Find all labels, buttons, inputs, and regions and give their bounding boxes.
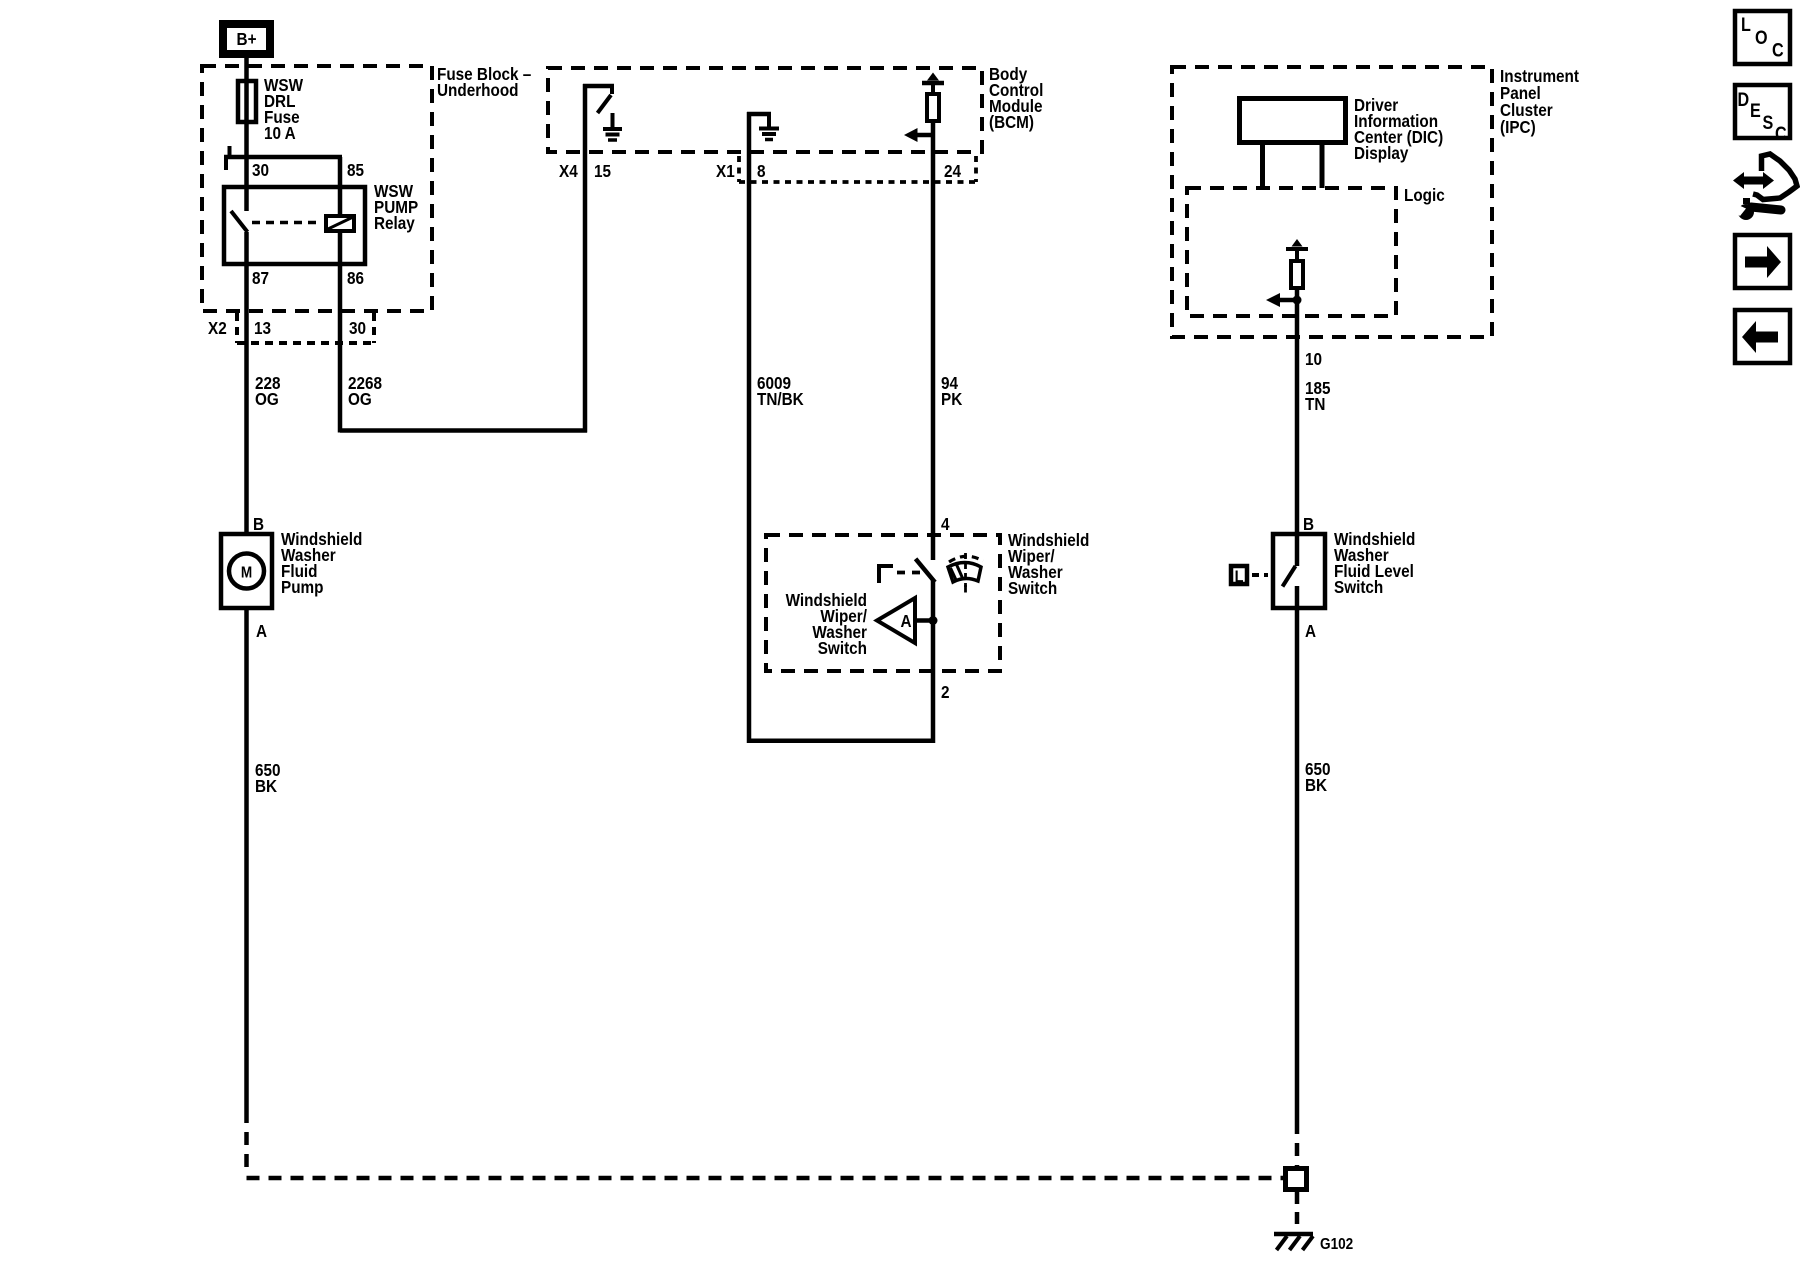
pin X4 label	[559, 161, 578, 181]
svg-text:L: L	[1741, 14, 1751, 36]
wire 2268 OG label	[348, 373, 382, 409]
relay pin 87 label	[252, 268, 269, 288]
fuse label	[264, 75, 303, 143]
sidebar DESC button	[1735, 85, 1790, 144]
relay pin 86 label	[347, 268, 364, 288]
switch blade pin4-pin2	[917, 561, 934, 581]
svg-text:C: C	[1772, 39, 1784, 61]
relay pin 87 wire	[244, 232, 249, 534]
svg-text:650BK: 650BK	[255, 760, 281, 796]
logic label	[1404, 185, 1445, 205]
relay switch blade	[231, 211, 248, 232]
IPC internal B+ symbol	[1286, 239, 1308, 261]
BCM internal switch (driver) at X4-15	[583, 84, 614, 152]
pin 2 label	[941, 682, 950, 702]
svg-text:X2: X2	[208, 318, 227, 338]
connector X2 dashed outline	[237, 313, 374, 343]
sidebar LOC button	[1735, 11, 1790, 64]
wire B+ to fuse (power feed)	[244, 58, 249, 81]
BCM internal ground at X1-8	[747, 112, 779, 152]
svg-text:G102: G102	[1320, 1236, 1353, 1253]
pin A label (pump)	[256, 621, 267, 641]
fuse block label	[437, 64, 531, 100]
svg-text:C: C	[1775, 123, 1787, 145]
pin 13 label	[254, 318, 271, 338]
BCM signal arrow (to pin 24)	[904, 121, 933, 560]
level switch label	[1334, 529, 1415, 597]
pin 8 label	[757, 161, 766, 181]
svg-text:A: A	[900, 611, 911, 631]
svg-text:10: 10	[1305, 349, 1322, 369]
svg-text:228OG: 228OG	[255, 373, 281, 409]
svg-text:15: 15	[594, 161, 611, 181]
switch linkage mark	[877, 564, 920, 583]
svg-text:85: 85	[347, 160, 364, 180]
switch wire pin2 side	[931, 580, 936, 743]
svg-text:X4: X4	[559, 161, 578, 181]
BCM internal B+ symbol	[922, 73, 944, 95]
svg-text:Logic: Logic	[1404, 185, 1445, 205]
pump motor M	[229, 554, 264, 589]
IPC label	[1500, 66, 1579, 137]
wire right dashed to splice	[1295, 1121, 1300, 1166]
wire 6009 TN/BK label	[757, 373, 804, 409]
svg-text:B+: B+	[237, 29, 257, 49]
sidebar prev-page button	[1735, 310, 1790, 363]
svg-text:87: 87	[252, 268, 269, 288]
pin X1 label	[716, 161, 735, 181]
instrument panel cluster dashed box	[1172, 67, 1492, 337]
wire BCM X1-8 down (6009 TN/BK)	[747, 152, 752, 743]
svg-text:B: B	[1303, 514, 1314, 534]
svg-text:30: 30	[349, 318, 366, 338]
relay coil	[326, 216, 354, 231]
logic dashed box	[1187, 188, 1396, 316]
sidebar next-page button	[1735, 235, 1790, 288]
DIC display legs	[1263, 143, 1323, 188]
fuse WSW DRL 10A	[238, 81, 256, 157]
battery feed B+ terminal	[223, 24, 270, 54]
pin 30 label	[349, 318, 366, 338]
windshield wiper/washer switch dashed box	[766, 535, 1000, 671]
svg-text:30: 30	[252, 160, 269, 180]
relay WSW PUMP box	[224, 187, 365, 264]
pin 10 label	[1305, 349, 1322, 369]
wire relay 86 to BCM X4-15	[340, 152, 587, 433]
wire pump to ground (650 BK)	[244, 608, 249, 1110]
driver information center display	[1240, 99, 1346, 143]
wiper switch inner label	[786, 590, 868, 658]
wire 94 PK label	[941, 373, 962, 409]
level switch L box	[1231, 566, 1268, 586]
fuse block underhood dashed box	[202, 66, 432, 311]
svg-text:2: 2	[941, 682, 950, 702]
svg-text:L: L	[1235, 568, 1244, 586]
BCM pull-up resistor	[927, 94, 939, 121]
svg-text:O: O	[1755, 27, 1768, 49]
ground G102 label	[1320, 1236, 1353, 1253]
level switch blade	[1283, 534, 1298, 610]
wire 650 BK label left	[255, 760, 281, 796]
svg-text:D: D	[1738, 89, 1750, 111]
pin B label (level switch)	[1303, 514, 1314, 534]
svg-text:A: A	[1305, 621, 1316, 641]
pin 24 label	[944, 161, 962, 181]
connector X2 label	[208, 318, 227, 338]
wire 228 OG label	[255, 373, 281, 409]
IPC pull-up resistor	[1291, 261, 1303, 288]
wire left dashed to splice	[247, 1110, 1284, 1178]
svg-text:Fuse Block –Underhood: Fuse Block –Underhood	[437, 64, 531, 100]
pin A label (level switch)	[1305, 621, 1316, 641]
relay linkage dashed	[252, 221, 322, 225]
svg-text:S: S	[1763, 112, 1774, 134]
wire level switch to ground (650 BK)	[1295, 608, 1300, 1121]
sidebar hand-wrench icon	[1733, 154, 1797, 220]
svg-text:X1: X1	[716, 161, 735, 181]
relay pin 30 label	[252, 160, 269, 180]
relay label	[374, 181, 418, 233]
wire fuse to relay pins 30/85	[224, 157, 342, 215]
wire 185 TN label	[1305, 378, 1331, 414]
body control module dashed box	[548, 68, 982, 152]
windshield washer fluid level switch box	[1273, 534, 1325, 608]
wiper switch outer label	[1008, 530, 1089, 598]
svg-text:WSWPUMPRelay: WSWPUMPRelay	[374, 181, 418, 233]
DIC label	[1354, 95, 1443, 163]
svg-text:8: 8	[757, 161, 766, 181]
pin B label (pump)	[253, 514, 264, 534]
svg-text:650BK: 650BK	[1305, 759, 1331, 795]
svg-text:86: 86	[347, 268, 364, 288]
svg-text:A: A	[256, 621, 267, 641]
svg-text:M: M	[241, 565, 252, 582]
svg-text:B: B	[253, 514, 264, 534]
svg-text:4: 4	[941, 514, 950, 534]
amplifier triangle A	[877, 598, 938, 643]
ground G102 symbol	[1274, 1234, 1313, 1250]
relay pin 85 label	[347, 160, 364, 180]
wire 650 BK label right	[1305, 759, 1331, 795]
pump label	[281, 529, 362, 597]
BCM label	[989, 64, 1043, 132]
relay pin 86 wire	[338, 233, 343, 433]
wire U-bottom joining pin2 and X1-8	[749, 738, 933, 743]
svg-text:24: 24	[944, 161, 962, 181]
pin 15 label	[594, 161, 611, 181]
connector X1 dotted outline	[739, 156, 976, 182]
hook symbol at node of fuse output	[226, 146, 230, 170]
pin 4 label	[941, 514, 950, 534]
IPC signal arrow	[1266, 288, 1302, 534]
splice junction square	[1286, 1169, 1307, 1190]
svg-text:E: E	[1750, 100, 1761, 122]
svg-text:13: 13	[254, 318, 271, 338]
windshield washer fluid pump box	[221, 534, 272, 608]
wiper washer icon	[948, 553, 983, 593]
wire splice to ground G102	[1295, 1192, 1300, 1232]
BCM internal ground at switch	[603, 113, 622, 140]
